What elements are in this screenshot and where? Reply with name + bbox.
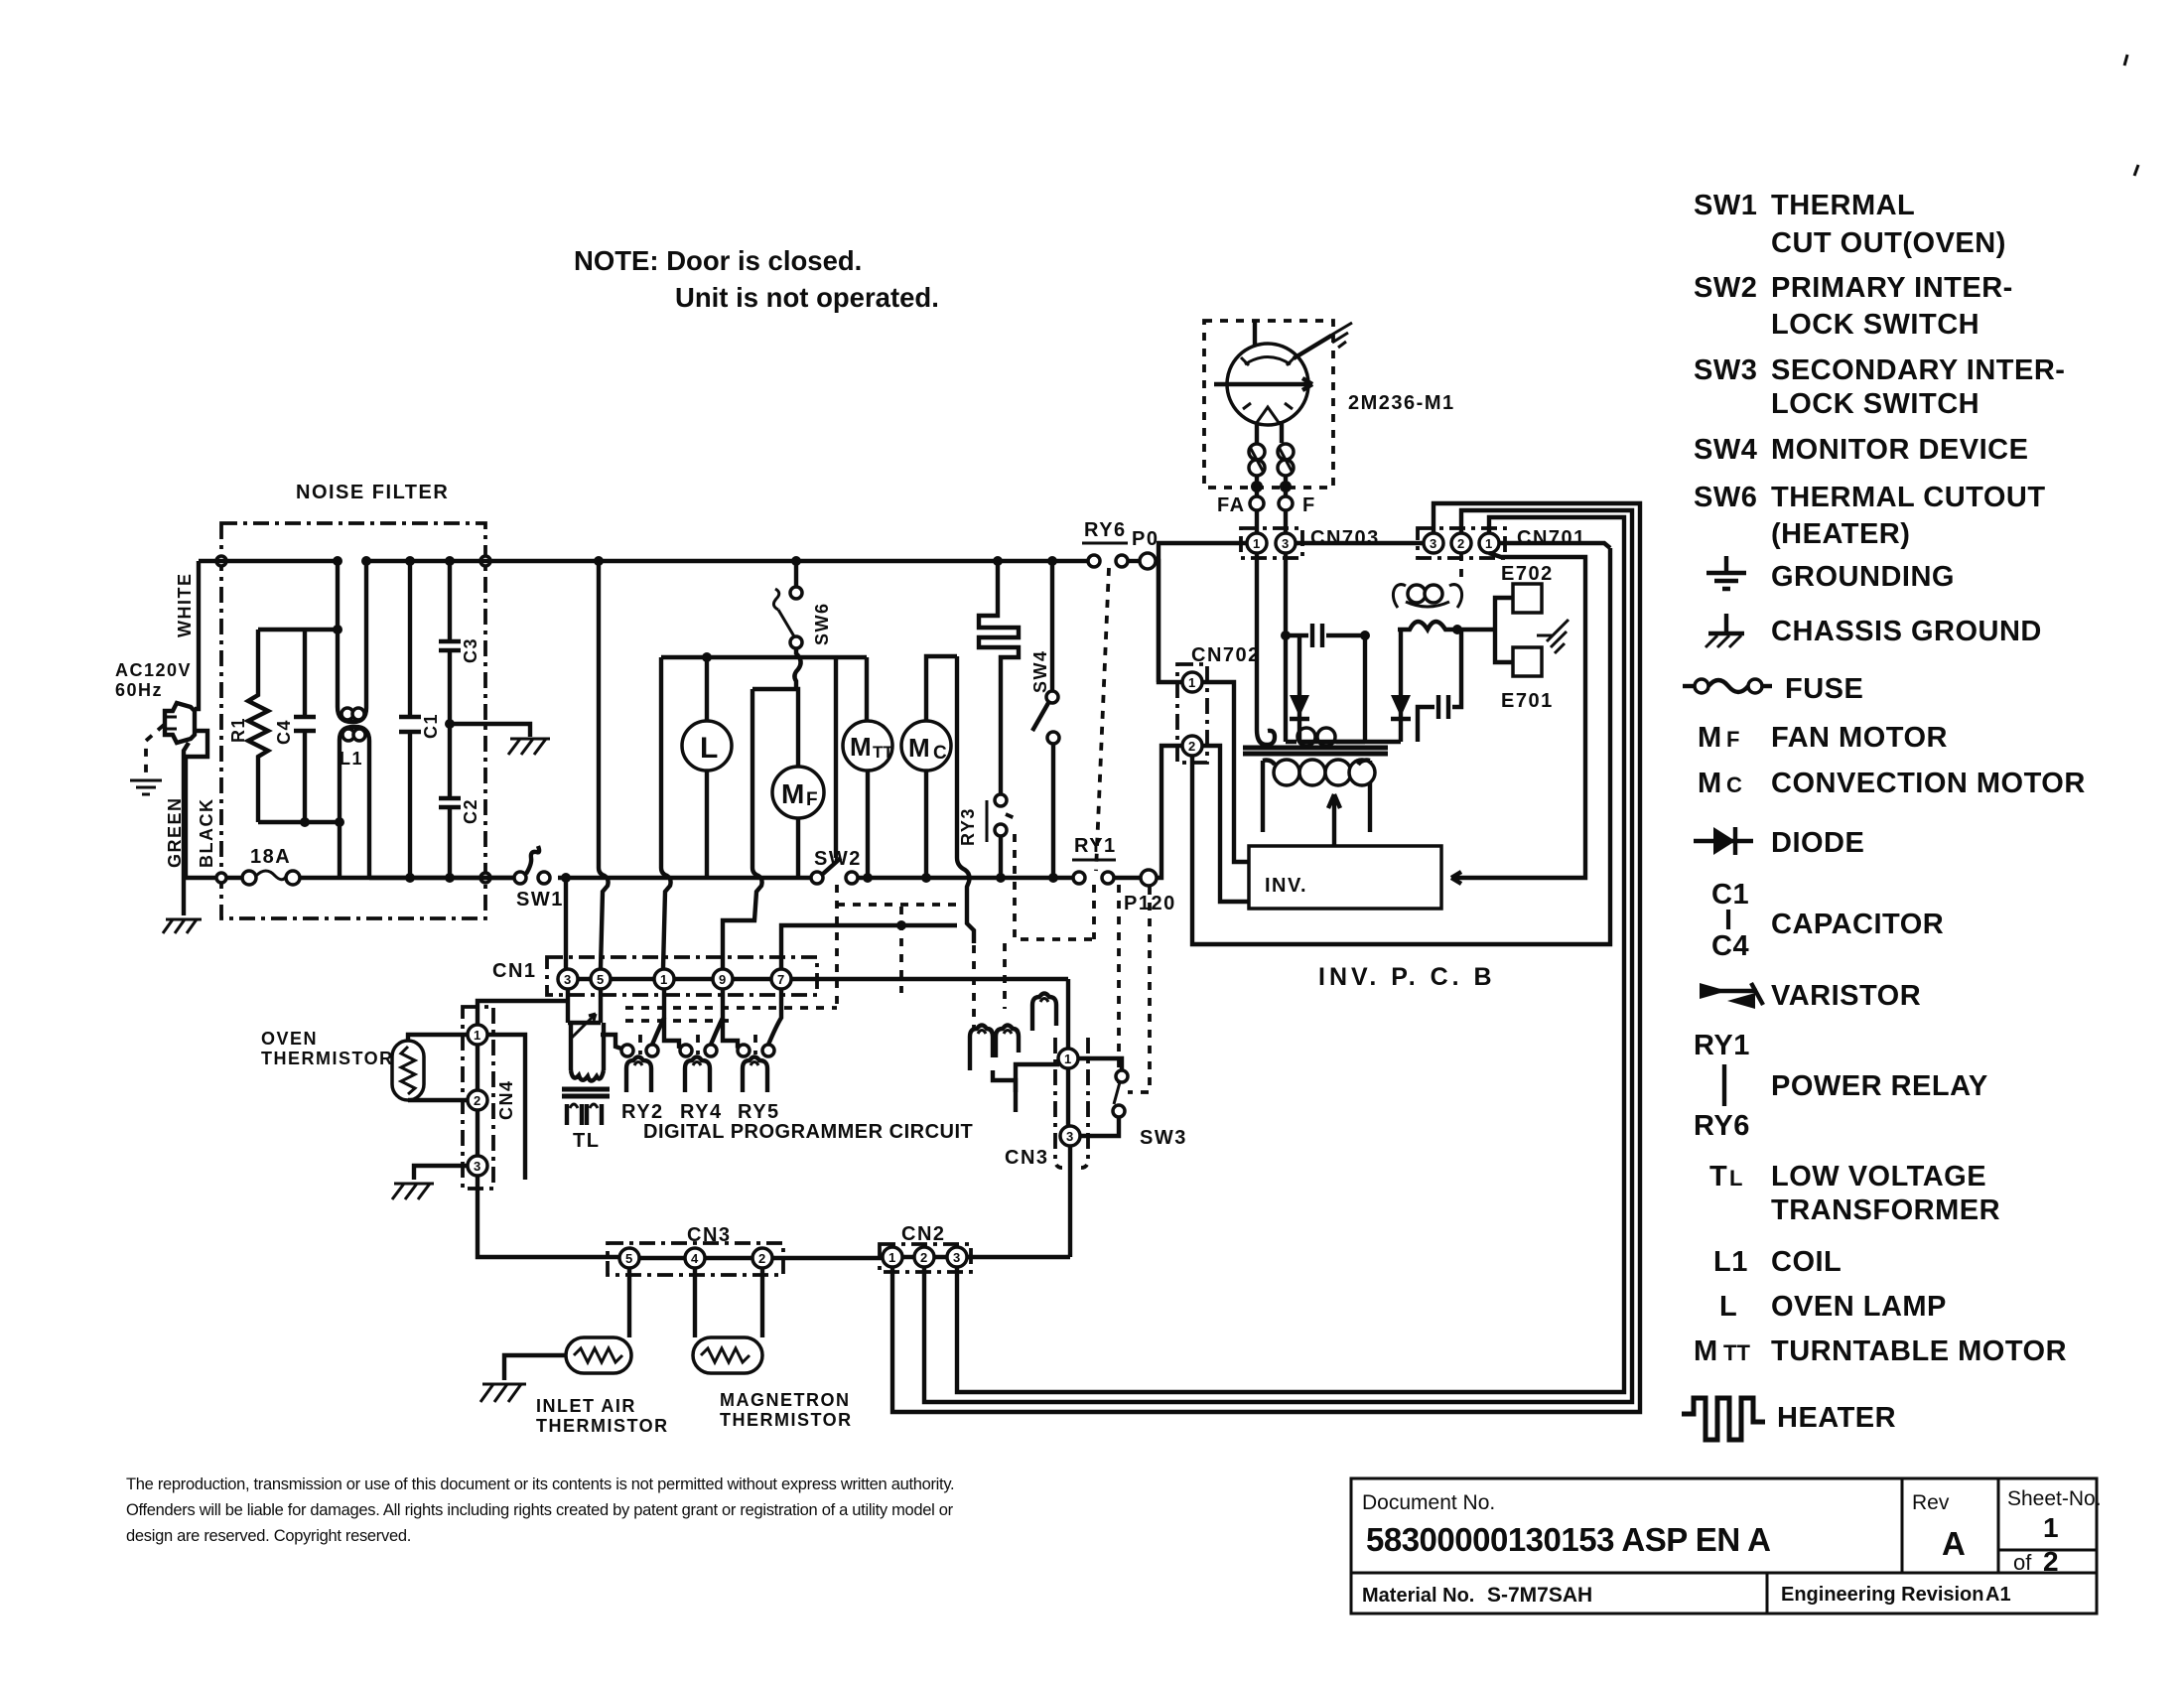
- coil L1 winding A: [338, 561, 366, 722]
- relay contact RY6: [1082, 519, 1140, 567]
- capacitor C3: [439, 561, 480, 724]
- AC source label AC120V 60Hz: [115, 660, 192, 700]
- connector CN2: [880, 1223, 971, 1272]
- wire R1/C4 top rail: [258, 628, 338, 631]
- terminal FA: [1217, 477, 1264, 516]
- node C4 bottom: [300, 817, 310, 827]
- node RY3 bottom: [996, 873, 1006, 883]
- connector CN701: [1418, 527, 1586, 558]
- title block document no: [1362, 1491, 1770, 1558]
- wire rail SW2 to RY1: [858, 876, 1074, 880]
- grounding symbol at plug: [130, 780, 162, 794]
- svg-text:L: L: [700, 732, 718, 765]
- svg-text:Offenders will be liable for d: Offenders will be liable for damages. Al…: [126, 1501, 954, 1519]
- wire CN3 pin1 to coils: [1016, 1064, 1059, 1092]
- dashed link coil armature right: [1003, 943, 1007, 1009]
- svg-text:SW4: SW4: [1694, 434, 1757, 466]
- copyright text: [126, 1475, 954, 1545]
- wire CN2 pin3 loop: [957, 517, 1624, 1392]
- node F junction: [1280, 481, 1292, 492]
- svg-text:1: 1: [660, 972, 667, 987]
- svg-text:CN701: CN701: [1517, 527, 1586, 549]
- wire CN702 pin1 to INV: [1202, 682, 1249, 862]
- svg-text:DIODE: DIODE: [1771, 827, 1864, 859]
- svg-text:1: 1: [474, 1028, 480, 1043]
- wire CN3 pin3 drop to CN2: [1068, 1146, 1072, 1257]
- monitor switch SW4: [1030, 561, 1059, 878]
- node MC bottom: [921, 873, 931, 883]
- wire CN3 pin1-pin3: [1066, 1068, 1070, 1126]
- node P120: [1124, 870, 1176, 914]
- wire CN703 pin1 to P0 net: [1159, 543, 1247, 682]
- node L1 top left: [333, 556, 342, 566]
- node C2/C3 mid: [445, 719, 455, 729]
- wire bottom rail between L1 and SW1: [369, 876, 516, 880]
- wire P120 to CN702 pin2: [1157, 746, 1183, 878]
- svg-text:1: 1: [1188, 675, 1195, 690]
- svg-text:Rev: Rev: [1912, 1491, 1950, 1514]
- wire CN2 pin1 loop: [892, 503, 1640, 1412]
- chassis ground noise filter: [508, 739, 550, 755]
- svg-text:CN703: CN703: [1310, 527, 1380, 549]
- inverter block INV: [1249, 846, 1441, 909]
- diode INV D-a: [1290, 635, 1309, 742]
- svg-text:INV.: INV.: [1265, 875, 1307, 897]
- node SW1 branch: [561, 873, 571, 883]
- chassis ground magnetron: [1325, 323, 1352, 348]
- svg-text:CN1: CN1: [492, 960, 537, 982]
- legend SW6: [1694, 482, 2046, 550]
- node: rail crossing box edge bottom: [216, 873, 226, 883]
- legend SW2: [1694, 272, 2013, 341]
- svg-text:CUT OUT(OVEN): CUT OUT(OVEN): [1771, 227, 2006, 259]
- wire CN2 pin3 to CN3 riser: [966, 1255, 1070, 1259]
- svg-text:SW4: SW4: [1030, 649, 1050, 693]
- node C1 top: [405, 556, 415, 566]
- wire bottom rail (black) fuse to SW1: [299, 876, 516, 880]
- relay coil RY2: [621, 1057, 664, 1124]
- svg-text:Document No.: Document No.: [1362, 1491, 1495, 1514]
- magnetron enclosure box: [1204, 321, 1333, 488]
- legend L: [1719, 1291, 1947, 1323]
- svg-text:R1: R1: [228, 717, 248, 743]
- svg-text:INV. P. C. B: INV. P. C. B: [1318, 963, 1496, 991]
- wire CN4 pin1 stub into circuit: [487, 1035, 525, 1180]
- node F cap branch: [1281, 631, 1291, 640]
- wire mid junction to chassis ground: [450, 724, 530, 737]
- node L1 top right: [361, 556, 371, 566]
- wire CN4 to bottom rail: [478, 1176, 620, 1257]
- relay contact feeder RY4: [664, 1018, 685, 1049]
- svg-text:3: 3: [953, 1250, 960, 1265]
- connector CN3 right pin3: [1060, 1126, 1080, 1146]
- legend varistor symbol: [1700, 980, 1921, 1012]
- wire SW2 blade feed from rail A: [834, 657, 838, 858]
- chassis ground INV: [1537, 620, 1569, 653]
- capacitor INV C-b: [1418, 630, 1461, 742]
- svg-text:PRIMARY INTER-: PRIMARY INTER-: [1771, 272, 2013, 304]
- node cap to choke: [1360, 631, 1370, 640]
- filament choke F: [1278, 444, 1294, 476]
- svg-text:2: 2: [1188, 739, 1195, 754]
- legend SW1: [1694, 190, 2006, 259]
- svg-text:1: 1: [1253, 536, 1260, 551]
- wire green lead: [184, 743, 189, 915]
- capacitor C4: [274, 630, 316, 822]
- wire white lead: [195, 561, 199, 709]
- svg-text:CN4: CN4: [496, 1079, 516, 1120]
- wire rail A left drop to CN1 pin1: [661, 657, 671, 968]
- legend capacitor: [1711, 879, 1944, 962]
- wire CN1 pin5 drop: [599, 989, 603, 1023]
- wire thermistor to CN4 pin1: [408, 1035, 468, 1041]
- wire P0 to CN702 pin1: [1156, 561, 1159, 682]
- svg-text:P0: P0: [1132, 528, 1159, 550]
- diode INV D-b: [1299, 630, 1411, 742]
- svg-text:F: F: [1302, 494, 1316, 516]
- svg-text:SW6: SW6: [1694, 482, 1757, 513]
- svg-text:MAGNETRON: MAGNETRON: [720, 1390, 851, 1410]
- svg-text:CN2: CN2: [901, 1223, 946, 1245]
- svg-text:C: C: [1726, 772, 1742, 797]
- svg-text:M: M: [1698, 722, 1722, 754]
- svg-text:COIL: COIL: [1771, 1246, 1842, 1278]
- svg-text:RY5: RY5: [738, 1101, 780, 1123]
- chassis ground inlet air: [480, 1384, 526, 1402]
- svg-text:2: 2: [758, 1251, 765, 1266]
- svg-text:3: 3: [1430, 536, 1436, 551]
- wire Mf branch to CN1 pin9: [723, 689, 762, 968]
- svg-text:2: 2: [474, 1093, 480, 1108]
- node SW4 top: [1047, 556, 1057, 566]
- svg-text:3: 3: [564, 972, 571, 987]
- wire CN1 pin7 riser: [781, 925, 901, 969]
- node: rail crossing box right edge top: [480, 556, 490, 566]
- connector CN4: [463, 1007, 516, 1189]
- legend chassis ground symbol: [1706, 614, 2042, 647]
- dashed link SW3 to P120 area: [1128, 887, 1150, 1092]
- title block material no: [1362, 1584, 1592, 1607]
- wire CN1 rail to CN3 pin1: [1066, 979, 1070, 1049]
- node heater top: [993, 556, 1003, 566]
- legend MTT: [1694, 1335, 2067, 1367]
- svg-text:4: 4: [691, 1251, 699, 1266]
- switch SW2: [811, 848, 862, 884]
- transformer core: [1243, 748, 1388, 754]
- svg-text:INLET AIR: INLET AIR: [536, 1396, 636, 1416]
- dashed link RY3 armature: [1015, 834, 1094, 939]
- wire black lead: [186, 731, 243, 878]
- svg-text:THERMISTOR: THERMISTOR: [720, 1410, 853, 1430]
- wire coil step link: [993, 1070, 1016, 1112]
- wire inductor to E bracket: [1457, 628, 1495, 631]
- switch SW3: [1077, 1058, 1187, 1149]
- node R1C4 bottom: [335, 817, 344, 827]
- svg-text:THERMISTOR: THERMISTOR: [536, 1416, 669, 1436]
- node C1 bottom: [405, 873, 415, 883]
- svg-text:E702: E702: [1501, 563, 1554, 585]
- dashed link to programmer circuit: [899, 907, 903, 993]
- NOTE text: [574, 245, 939, 313]
- filament choke FA: [1249, 444, 1265, 476]
- svg-text:A: A: [1942, 1525, 1965, 1562]
- oven thermistor: [261, 1029, 424, 1100]
- switch SW6: [773, 561, 832, 689]
- svg-text:L: L: [1719, 1291, 1737, 1323]
- chassis ground green: [163, 919, 202, 933]
- wire top rail (white) left segment: [199, 559, 338, 563]
- svg-text:SW1: SW1: [516, 889, 564, 911]
- svg-text:LOW VOLTAGE: LOW VOLTAGE: [1771, 1161, 1986, 1193]
- legend MF: [1698, 722, 1948, 754]
- node MTT bottom: [863, 873, 873, 883]
- svg-text:TRANSFORMER: TRANSFORMER: [1771, 1194, 2000, 1226]
- svg-text:design are reserved. Copyright: design are reserved. Copyright reserved.: [126, 1527, 411, 1545]
- svg-text:3: 3: [1066, 1129, 1073, 1144]
- title block outer box: [1351, 1478, 2097, 1614]
- svg-text:SW6: SW6: [812, 602, 832, 645]
- svg-text:Engineering Revision: Engineering Revision: [1781, 1584, 1983, 1606]
- plug earth dashed lead: [146, 725, 164, 776]
- inverter transformer primary FA leg: [1257, 553, 1275, 745]
- svg-text:POWER RELAY: POWER RELAY: [1771, 1070, 1988, 1102]
- svg-text:GROUNDING: GROUNDING: [1771, 561, 1955, 593]
- legend Mc: [1698, 768, 2086, 799]
- legend power relay: [1694, 1030, 1988, 1142]
- svg-text:SW3: SW3: [1140, 1127, 1187, 1149]
- node SW4 bottom: [1048, 873, 1058, 883]
- svg-text:3: 3: [474, 1159, 480, 1174]
- svg-text:1: 1: [2043, 1512, 2059, 1543]
- capacitor INV C-a: [1286, 624, 1365, 647]
- terminal F: [1279, 477, 1316, 516]
- node L top: [702, 652, 712, 662]
- node E bracket: [1452, 625, 1462, 634]
- svg-text:MONITOR DEVICE: MONITOR DEVICE: [1771, 434, 2028, 466]
- svg-text:Sheet-No.: Sheet-No.: [2007, 1487, 2102, 1510]
- svg-text:RY3: RY3: [958, 807, 978, 846]
- low voltage transformer TL: [562, 1023, 610, 1152]
- varistor across TL primary: [568, 1014, 601, 1043]
- svg-text:SW3: SW3: [1694, 354, 1757, 386]
- svg-text:OVEN LAMP: OVEN LAMP: [1771, 1291, 1947, 1323]
- svg-text:C: C: [933, 743, 947, 764]
- svg-text:DIGITAL PROGRAMMER CIRCUIT: DIGITAL PROGRAMMER CIRCUIT: [643, 1121, 973, 1143]
- switch SW1: [514, 846, 564, 911]
- svg-text:NOTE: Door is closed.: NOTE: Door is closed.: [574, 245, 862, 276]
- connector CN703: [1241, 510, 1380, 558]
- magnetron thermistor: [693, 1268, 853, 1430]
- relay coil RY4: [680, 1057, 723, 1124]
- dashed link RY6-RY1: [1096, 568, 1109, 871]
- legend TL: [1709, 1161, 2000, 1226]
- svg-text:M: M: [781, 778, 804, 809]
- coil L1 winding B: [340, 727, 369, 878]
- svg-text:of: of: [2013, 1550, 2032, 1575]
- svg-text:S-7M7SAH: S-7M7SAH: [1487, 1584, 1592, 1607]
- svg-text:LOCK SWITCH: LOCK SWITCH: [1771, 388, 1979, 420]
- svg-text:CHASSIS GROUND: CHASSIS GROUND: [1771, 616, 2042, 647]
- svg-text:C2: C2: [461, 798, 480, 824]
- inductor INV top: [1398, 622, 1457, 630]
- transformer secondary: [1263, 760, 1375, 832]
- svg-text:58300000130153 ASP EN A: 58300000130153 ASP EN A: [1366, 1521, 1770, 1558]
- relay contact feeder RY2: [601, 1035, 621, 1049]
- wire CN2 pin2 loop: [924, 510, 1632, 1402]
- svg-text:TL: TL: [573, 1130, 600, 1152]
- svg-text:E701: E701: [1501, 690, 1554, 712]
- connector CN3 right pin1: [1058, 1049, 1078, 1068]
- legend SW3: [1694, 354, 2065, 420]
- legend diode symbol: [1694, 827, 1864, 859]
- svg-text:A1: A1: [1985, 1584, 2011, 1606]
- node: rail crossing box edge top: [216, 556, 226, 566]
- svg-text:F: F: [1726, 727, 1739, 752]
- dashed linkage long upper: [625, 1006, 837, 1010]
- relay contact RY4: [680, 989, 723, 1056]
- title block sheet no: [2007, 1487, 2102, 1577]
- legend fuse symbol: [1683, 673, 1863, 705]
- svg-text:LOCK SWITCH: LOCK SWITCH: [1771, 309, 1979, 341]
- connector CN702: [1177, 644, 1261, 763]
- svg-text:TT: TT: [873, 743, 893, 762]
- wire CN1 pin5 riser: [599, 561, 609, 968]
- node C2 bottom: [445, 873, 455, 883]
- svg-text:5: 5: [597, 972, 604, 987]
- svg-text:18A: 18A: [250, 846, 291, 868]
- legend SW4: [1694, 434, 2028, 466]
- node pin7 riser joint: [896, 920, 906, 930]
- svg-text:SW1: SW1: [1694, 190, 1757, 221]
- svg-text:L1: L1: [1713, 1246, 1748, 1278]
- svg-text:CN3: CN3: [1005, 1147, 1049, 1169]
- node SW6 top: [791, 556, 801, 566]
- svg-text:(HEATER): (HEATER): [1771, 518, 1910, 550]
- fan motor MF: [752, 689, 824, 878]
- svg-text:TURNTABLE MOTOR: TURNTABLE MOTOR: [1771, 1335, 2067, 1367]
- svg-text:2: 2: [920, 1250, 927, 1265]
- svg-text:M: M: [1694, 1335, 1718, 1367]
- heater element: [979, 561, 1019, 794]
- wire E bracket: [1495, 598, 1513, 662]
- convection motor MC: [901, 656, 957, 878]
- relay contact RY1: [1072, 835, 1140, 884]
- svg-text:VARISTOR: VARISTOR: [1771, 980, 1921, 1012]
- svg-text:RY2: RY2: [621, 1101, 664, 1123]
- svg-text:HEATER: HEATER: [1777, 1402, 1896, 1434]
- svg-text:SECONDARY INTER-: SECONDARY INTER-: [1771, 354, 2065, 386]
- wire CN4 pin3 to ground: [414, 1166, 468, 1180]
- dashed linkage long lower: [625, 1019, 735, 1023]
- wire board rail to CN701 pin3: [1499, 543, 1610, 548]
- ferrite E702: [1501, 563, 1554, 613]
- svg-text:C1: C1: [421, 713, 441, 739]
- svg-text:2M236-M1: 2M236-M1: [1348, 392, 1455, 414]
- wire thermistor to CN4 pin2: [408, 1098, 468, 1102]
- node top rail pin5: [594, 556, 604, 566]
- node R1C4 top: [333, 625, 342, 634]
- magnetron 2M236-M1: [1214, 321, 1455, 425]
- noise filter enclosure box: [221, 523, 485, 918]
- svg-text:AC120V: AC120V: [115, 660, 192, 680]
- svg-text:1: 1: [1064, 1052, 1071, 1066]
- svg-text:GREEN: GREEN: [165, 796, 185, 868]
- svg-text:NOISE FILTER: NOISE FILTER: [296, 482, 449, 503]
- node C3 top: [445, 556, 455, 566]
- dashed link RY1 to programmer: [1117, 885, 1121, 1090]
- svg-text:M: M: [908, 733, 930, 763]
- relay contact feeder RY5: [723, 1018, 743, 1049]
- node: rail crossing box right edge bottom: [480, 873, 490, 883]
- svg-text:M: M: [850, 732, 872, 762]
- svg-text:Unit is not operated.: Unit is not operated.: [675, 282, 939, 313]
- title block rev: [1912, 1491, 1965, 1562]
- svg-text:7: 7: [777, 972, 784, 987]
- svg-text:2: 2: [1457, 536, 1464, 551]
- relay coil left pair B: [996, 1026, 1019, 1058]
- node FA junction: [1251, 481, 1263, 492]
- svg-text:FA: FA: [1217, 494, 1246, 516]
- wire magnetron filament legs: [1257, 421, 1282, 443]
- svg-text:CAPACITOR: CAPACITOR: [1771, 909, 1944, 940]
- svg-text:WHITE: WHITE: [175, 573, 195, 638]
- connector CN3 right box: [1055, 1038, 1088, 1168]
- svg-text:The reproduction, transmission: The reproduction, transmission or use of…: [126, 1475, 954, 1493]
- inverter winding bumps: [1286, 728, 1365, 746]
- svg-text:L1: L1: [340, 749, 363, 769]
- wire CN1 pin3 to transformer: [566, 989, 570, 1023]
- turntable motor MTT: [843, 657, 893, 878]
- speck mark top right: [2124, 55, 2138, 176]
- wire lamp rail A: [661, 655, 867, 659]
- svg-text:THERMAL: THERMAL: [1771, 190, 1915, 221]
- wire SW1 to SW2 rail segment: [558, 876, 812, 880]
- wire CN1 pin3 to CN4: [478, 1001, 568, 1026]
- svg-text:C3: C3: [461, 637, 480, 663]
- node P0: [1132, 528, 1159, 569]
- svg-text:RY6: RY6: [1084, 519, 1127, 541]
- wire CN702 pin2 to INV: [1202, 746, 1249, 902]
- legend heater symbol: [1682, 1398, 1896, 1440]
- wire pin7 riser extension: [901, 923, 957, 927]
- svg-text:FUSE: FUSE: [1785, 673, 1863, 705]
- chassis ground CN4: [392, 1184, 434, 1199]
- connector CN1: [492, 957, 1068, 995]
- inlet air thermistor: [504, 1268, 669, 1436]
- svg-text:SW2: SW2: [1694, 272, 1757, 304]
- arrow INV drive: [1328, 794, 1340, 846]
- svg-text:FAN MOTOR: FAN MOTOR: [1771, 722, 1948, 754]
- svg-text:5: 5: [625, 1251, 632, 1266]
- wire R1/C4 bottom rail: [258, 820, 340, 824]
- svg-text:BLACK: BLACK: [197, 798, 216, 869]
- wire top rail (white) main segment: [366, 559, 1089, 563]
- svg-text:F: F: [806, 789, 818, 810]
- svg-text:TT: TT: [1723, 1340, 1750, 1365]
- svg-text:RY1: RY1: [1694, 1030, 1750, 1061]
- dashed link SW2 armature: [837, 885, 959, 1006]
- oven lamp L: [682, 657, 732, 878]
- relay contact RY5: [738, 989, 781, 1056]
- coil INV top secondary: [1393, 585, 1461, 608]
- relay contact RY3: [958, 794, 1015, 878]
- wire CN701 pin1 feedback to INV: [1451, 553, 1585, 884]
- svg-text:T: T: [1709, 1161, 1727, 1193]
- svg-text:9: 9: [719, 972, 726, 987]
- svg-text:2: 2: [2043, 1546, 2059, 1577]
- wire CN702 pin2 board rail: [1192, 548, 1610, 944]
- wire MC branch to relay coil: [957, 656, 974, 943]
